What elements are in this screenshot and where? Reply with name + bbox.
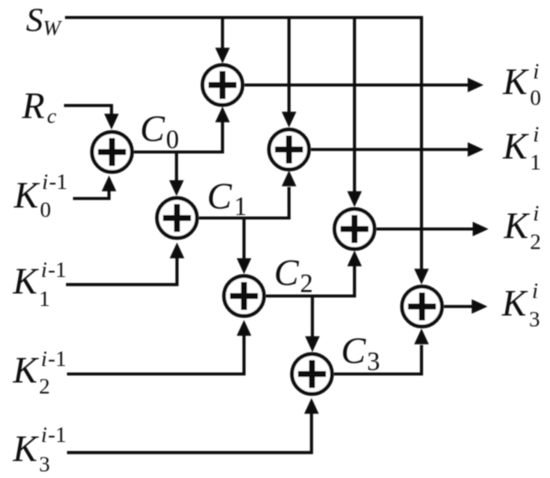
- svg-text:2: 2: [530, 229, 541, 254]
- svg-text:K: K: [12, 261, 39, 302]
- svg-text:K: K: [501, 283, 528, 324]
- XOR gate T1: [269, 130, 309, 170]
- svg-text:0: 0: [530, 85, 541, 110]
- wire drop to XOR T0: [221, 18, 224, 51]
- svg-text:3: 3: [367, 347, 380, 376]
- svg-text:c: c: [47, 104, 57, 128]
- svg-text:i: i: [532, 278, 538, 303]
- wire K_2^{i-1} lead: [67, 334, 244, 375]
- svg-text:i: i: [533, 122, 539, 147]
- svg-text:-1: -1: [49, 169, 67, 194]
- label C_3: [341, 331, 380, 376]
- svg-text:i: i: [42, 169, 48, 194]
- wire drop to XOR T2: [353, 18, 356, 194]
- wire S_W top bus: [65, 18, 422, 272]
- svg-text:-1: -1: [48, 422, 66, 447]
- svg-text:C: C: [274, 253, 300, 294]
- svg-text:K: K: [502, 61, 529, 102]
- svg-text:C: C: [140, 109, 166, 150]
- wire C_2 to T2: [266, 266, 355, 297]
- wire C_2 branch down to G4: [311, 296, 314, 339]
- label C_2: [274, 253, 313, 298]
- svg-text:K: K: [12, 428, 39, 469]
- wire T1 output to K_1^i: [311, 148, 470, 151]
- svg-text:0: 0: [40, 197, 51, 222]
- svg-text:S: S: [26, 2, 43, 39]
- svg-text:K: K: [13, 175, 40, 216]
- wire C_1 branch down to G3: [242, 218, 245, 261]
- wire C_0 to T0: [134, 122, 223, 153]
- svg-text:i: i: [41, 422, 47, 447]
- arrowhead into XOR T3: [414, 269, 429, 285]
- svg-text:i: i: [41, 257, 47, 282]
- label R_c: [21, 86, 57, 128]
- XOR gate T0: [203, 65, 243, 105]
- svg-text:C: C: [207, 177, 233, 218]
- svg-text:i: i: [41, 346, 47, 371]
- XOR gate G3: [224, 276, 264, 316]
- svg-text:R: R: [21, 86, 45, 127]
- svg-text:3: 3: [529, 307, 540, 332]
- label K_1^{i-1}: [12, 257, 66, 311]
- svg-text:1: 1: [39, 286, 50, 311]
- wire K_0^{i-1} lead: [73, 189, 109, 199]
- svg-text:-1: -1: [48, 346, 66, 371]
- label K_3^{i-1}: [12, 422, 66, 477]
- wire C_1 to T1: [199, 187, 289, 218]
- label C_1: [207, 177, 247, 222]
- wire T2 output to K_2^i: [377, 227, 476, 230]
- wire K_3^{i-1} lead: [67, 412, 312, 453]
- label K_0^{i-1}: [13, 169, 67, 222]
- svg-text:i: i: [533, 201, 539, 226]
- wire T3 output to K_3^i: [444, 305, 474, 308]
- svg-text:W: W: [43, 16, 63, 40]
- wire R_c lead: [64, 106, 112, 117]
- svg-text:3: 3: [39, 452, 50, 477]
- svg-text:i: i: [533, 59, 539, 84]
- label K_1^i: [502, 122, 541, 175]
- svg-text:K: K: [502, 126, 529, 167]
- label K_3^i: [501, 278, 540, 332]
- svg-text:C: C: [341, 331, 367, 372]
- wire drop to XOR T1: [287, 18, 290, 115]
- XOR gate G1: [92, 132, 132, 172]
- wire C_3 to T3: [334, 345, 422, 374]
- wire K_1^{i-1} lead: [66, 256, 177, 285]
- label S_W: [26, 2, 63, 40]
- label C_0: [140, 109, 179, 154]
- XOR gate G2: [157, 198, 197, 238]
- wire T0 output to K_0^i: [245, 83, 471, 86]
- XOR gate T3: [402, 287, 442, 327]
- svg-text:K: K: [503, 205, 530, 246]
- XOR gate G4: [292, 354, 332, 394]
- svg-text:1: 1: [530, 150, 541, 175]
- label K_2^{i-1}: [12, 346, 66, 399]
- svg-text:K: K: [12, 350, 39, 391]
- svg-text:-1: -1: [48, 257, 66, 282]
- label K_2^i: [503, 201, 541, 255]
- svg-text:2: 2: [300, 269, 313, 298]
- label K_0^i: [502, 59, 541, 111]
- svg-text:2: 2: [39, 374, 50, 399]
- wire C_0 branch down to G2: [175, 152, 178, 183]
- svg-text:0: 0: [166, 125, 179, 154]
- XOR gate T2: [335, 209, 375, 249]
